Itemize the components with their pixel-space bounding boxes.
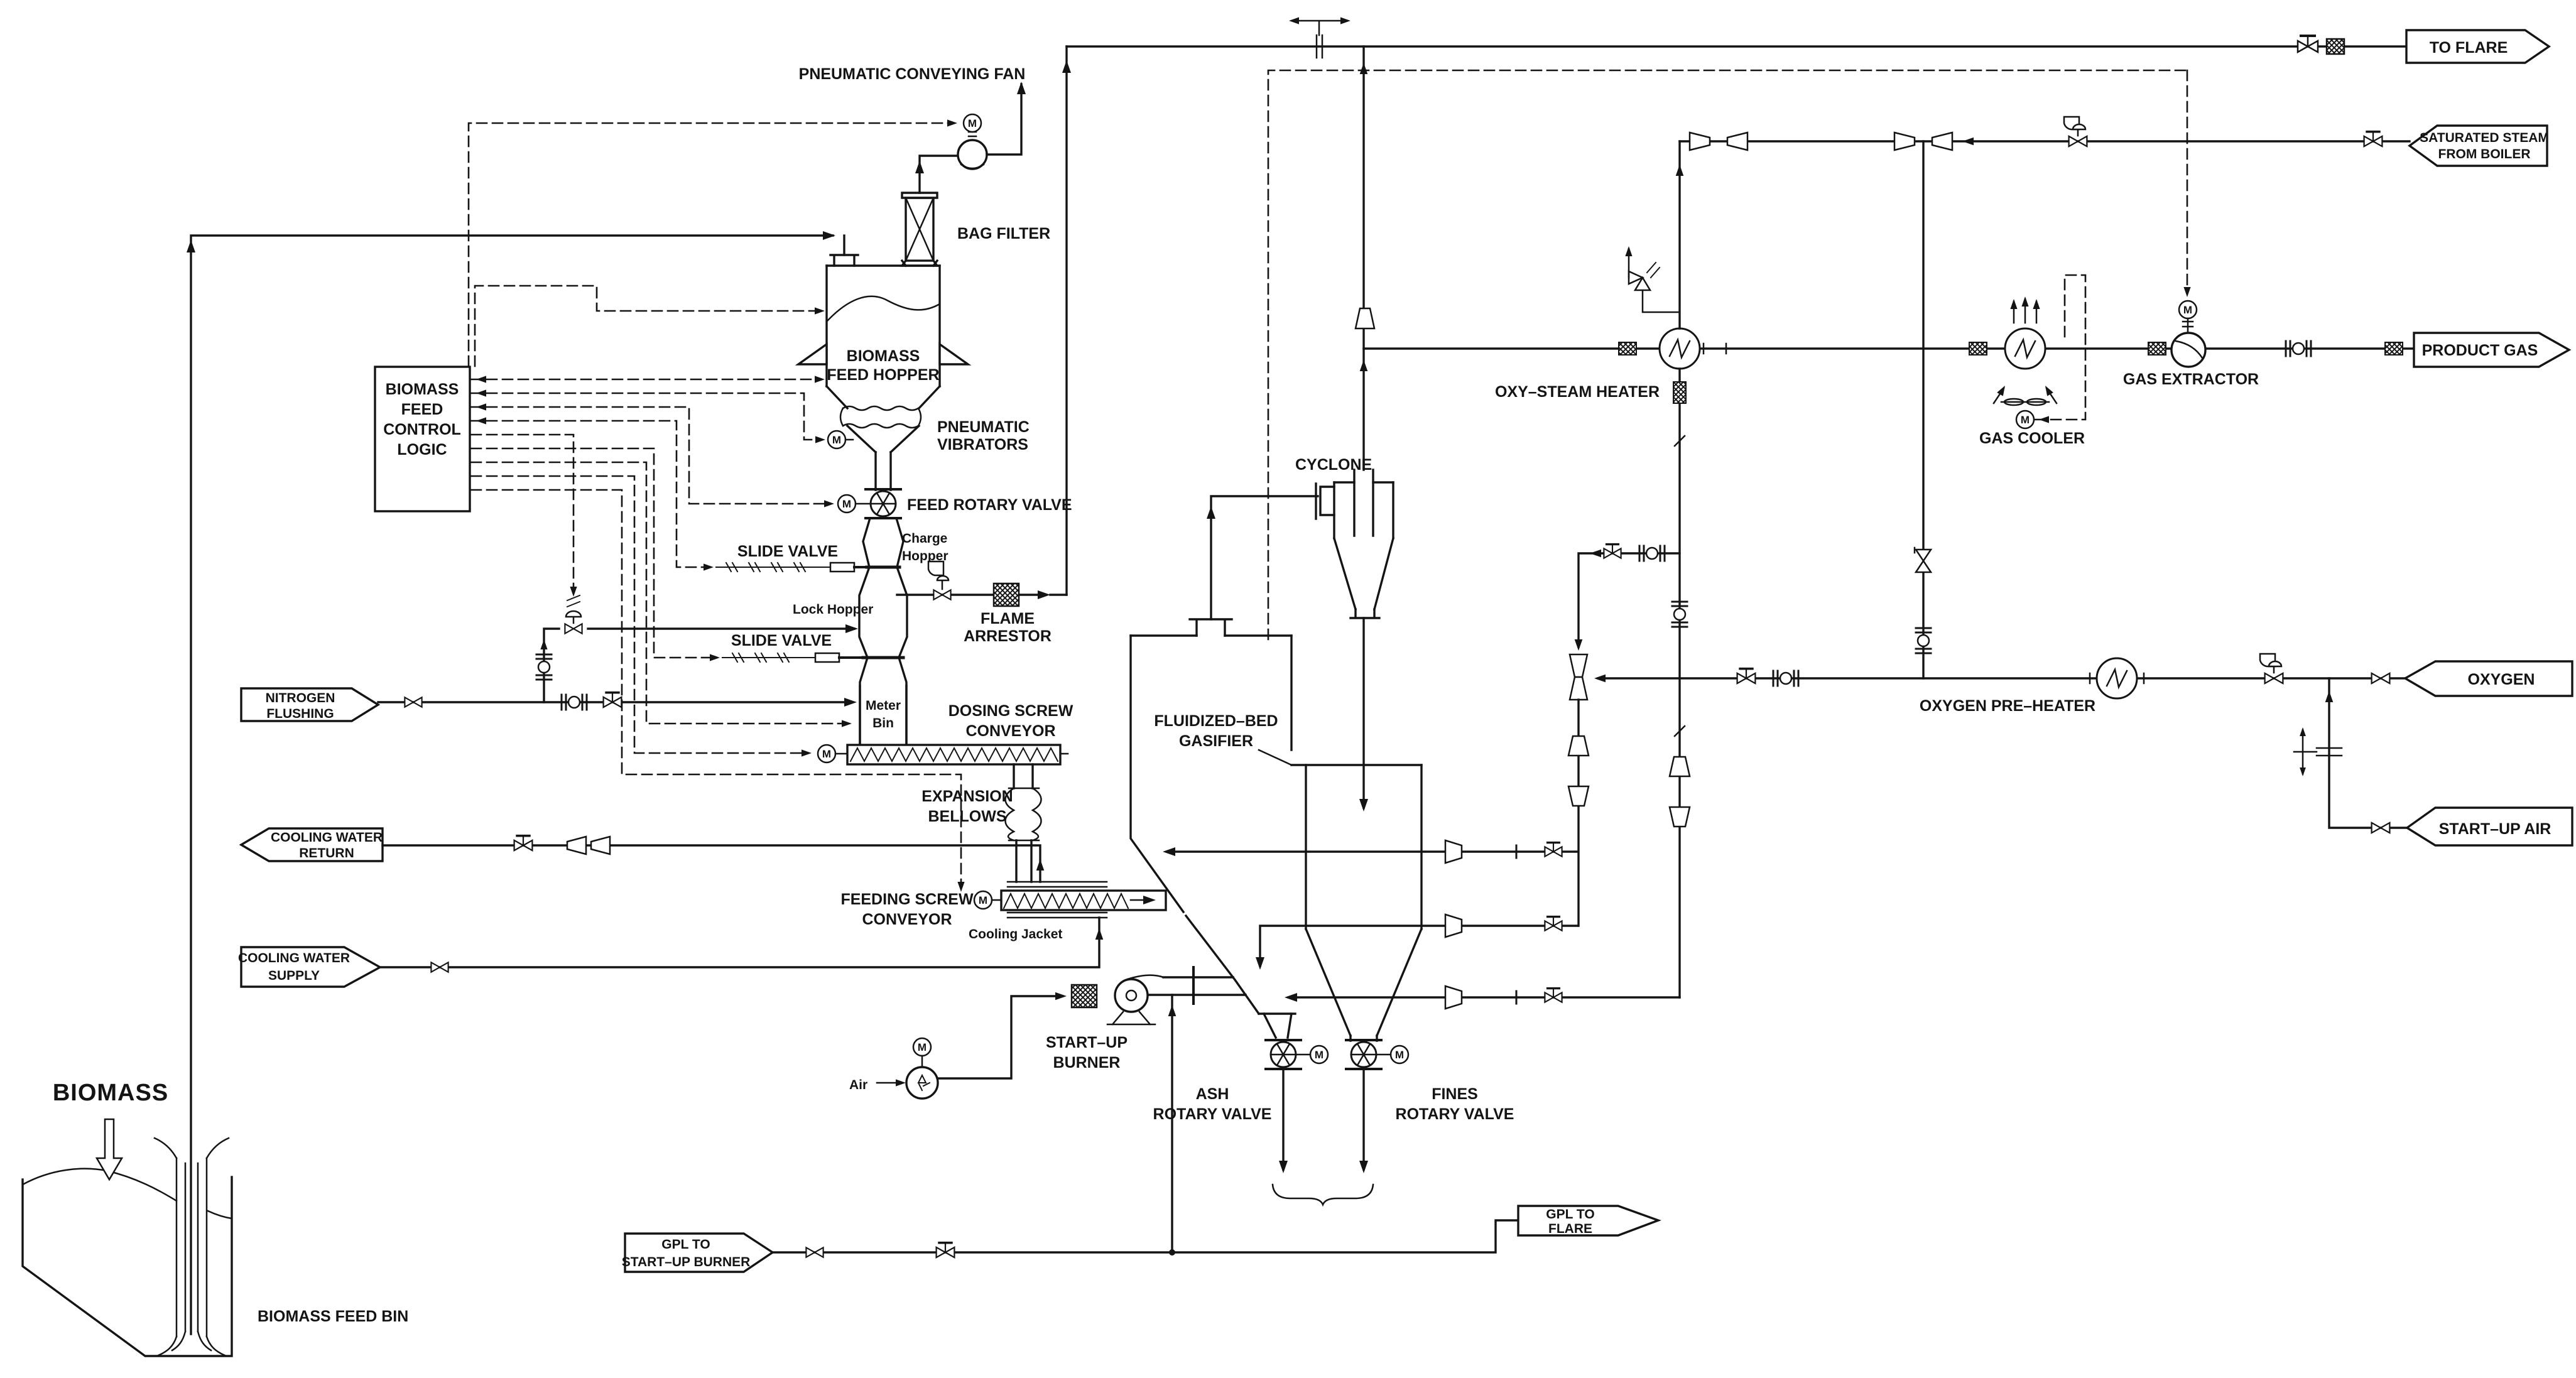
chute from dosing screw to bellows <box>1014 764 1033 788</box>
motor M of conveying fan <box>964 114 981 132</box>
signal B: to hopper upper <box>475 286 817 366</box>
signal H: to slide valve 2 <box>471 448 715 658</box>
gasifier left wall <box>1131 636 1183 912</box>
injection line 3 into ash zone <box>1289 996 1680 998</box>
strainer before extractor <box>2148 342 2166 355</box>
control signal dashed lines <box>469 123 961 888</box>
signal K: to feeding screw motor <box>471 490 961 888</box>
motor M of feeding screw <box>974 891 992 909</box>
fluidized-bed gasifier vessel <box>1131 619 1421 1041</box>
signal E: to feed rotary valve motor <box>471 407 829 504</box>
label leader <box>1259 750 1291 765</box>
svg-text:SUPPLY: SUPPLY <box>268 968 320 983</box>
feed rotary valve <box>866 489 901 518</box>
svg-text:BIOMASS FEED BIN: BIOMASS FEED BIN <box>258 1308 408 1325</box>
ash discharge <box>1282 1069 1284 1169</box>
svg-text:START–UP: START–UP <box>1046 1034 1128 1051</box>
svg-text:CONTROL: CONTROL <box>383 421 461 438</box>
oxygen line <box>1599 677 2405 679</box>
meter bin walls <box>860 686 906 745</box>
flag: NITROGEN FLUSHING <box>241 688 378 721</box>
svg-text:BAG FILTER: BAG FILTER <box>957 225 1050 242</box>
orifice on steam drop <box>1916 628 1931 653</box>
product gas line <box>1364 347 2412 349</box>
fines hopper cone <box>1306 929 1421 1036</box>
oxygen pre-heater <box>2097 658 2137 698</box>
svg-text:LOGIC: LOGIC <box>397 441 447 458</box>
funnels on oxy-steam riser <box>1670 757 1690 776</box>
svg-text:Lock Hopper: Lock Hopper <box>793 602 873 617</box>
manifold down to injection lines <box>1577 700 1579 926</box>
strainer before gas cooler <box>1969 342 1987 355</box>
svg-text:FLARE: FLARE <box>1548 1222 1592 1236</box>
flare header <box>1067 45 2405 47</box>
wire: drop into hopper nozzle <box>843 236 845 255</box>
oxy-steam riser <box>1678 141 1680 997</box>
signal G: to nitrogen control valve <box>471 435 573 593</box>
svg-text:SLIDE VALVE: SLIDE VALVE <box>731 632 832 649</box>
svg-text:FINES: FINES <box>1432 1085 1478 1103</box>
flag: COOLING WATER RETURN <box>241 828 383 861</box>
chute from bellows to feeding screw <box>1016 840 1031 882</box>
slide valve 1 gate plate <box>867 566 899 569</box>
svg-text:CONVEYOR: CONVEYOR <box>965 722 1055 740</box>
svg-text:Charge: Charge <box>902 531 947 546</box>
globe valve on oxygen line <box>1737 669 1756 683</box>
GPL riser to burner <box>1171 995 1173 1252</box>
oxy-steam branch to venturi manifold <box>1579 553 1680 647</box>
gasifier lower left wall below feeding screw <box>1186 916 1259 1014</box>
svg-text:Air: Air <box>849 1078 867 1092</box>
relief valve on oxy-steam riser <box>1625 246 1680 312</box>
svg-text:FROM BOILER: FROM BOILER <box>2438 147 2531 161</box>
steam header <box>1680 140 2410 142</box>
valve on CW supply <box>431 962 448 972</box>
orifice on purge riser <box>536 654 552 680</box>
air fan <box>906 1067 938 1099</box>
svg-text:GAS COOLER: GAS COOLER <box>1979 430 2085 447</box>
gasifier top and nozzle <box>1131 634 1291 636</box>
screw discharge arrow into gasifier <box>1131 899 1151 901</box>
flag: OXYGEN <box>2405 661 2572 696</box>
strainer left of oxy-steam heater <box>1619 342 1636 355</box>
reducer on riser <box>1356 308 1374 328</box>
svg-text:OXYGEN PRE–HEATER: OXYGEN PRE–HEATER <box>1920 697 2095 715</box>
gasifier gas outlet to cyclone <box>1211 496 1318 619</box>
slide valve 1 actuator rod and body <box>716 563 830 572</box>
gasifier right wall upper <box>1290 636 1292 750</box>
expander pair on steam header <box>1690 133 1710 150</box>
start-up burner <box>1107 975 1163 1024</box>
svg-text:TO FLARE: TO FLARE <box>2430 39 2508 57</box>
nitrogen purge branch riser <box>544 629 559 702</box>
funnels on manifold <box>1568 736 1589 756</box>
svg-text:PNEUMATIC: PNEUMATIC <box>937 418 1030 436</box>
injection quill on riser <box>2294 730 2342 774</box>
valve near oxygen flag <box>2372 673 2390 683</box>
GPL main line <box>773 1220 1518 1252</box>
gate valve on steam drop <box>1915 548 1931 572</box>
cyclone overhead riser to flare header <box>1362 46 1364 470</box>
flag: TO FLARE <box>2406 30 2549 63</box>
underbrace <box>1273 1185 1373 1205</box>
slide valve 2 actuator rod and body <box>722 653 815 662</box>
charge hopper vent line to flare riser <box>897 594 1045 595</box>
signal arrowheads <box>947 119 957 126</box>
biomass inflow hollow arrow <box>97 1119 122 1180</box>
svg-text:COOLING WATER: COOLING WATER <box>271 830 383 845</box>
signal C: to hopper skirt <box>471 379 818 381</box>
oxy-steam heater <box>1660 328 1700 369</box>
orifice on oxygen line <box>1773 671 1798 686</box>
valve on start-up air line <box>2372 823 2390 833</box>
signal F: to slide valve 1 <box>471 421 709 567</box>
expansion bellows <box>1006 788 1041 840</box>
svg-text:ARRESTOR: ARRESTOR <box>964 627 1052 645</box>
flag: START-UP AIR <box>2407 808 2572 845</box>
steam tee reducers <box>1894 133 1915 150</box>
svg-text:START–UP AIR: START–UP AIR <box>2439 820 2552 838</box>
globe valve on GPL line <box>937 1243 955 1257</box>
pneumatic conveying fan <box>958 132 987 169</box>
steam drop line to oxygen <box>1922 141 1924 678</box>
steam control valve <box>2064 117 2087 146</box>
svg-text:FEEDING SCREW: FEEDING SCREW <box>840 891 974 908</box>
orifice on oxy-steam riser <box>1672 602 1687 627</box>
ash rotary valve <box>1266 1040 1301 1069</box>
fines discharge <box>1362 1069 1364 1169</box>
pressure regulator valve on vent <box>928 562 951 600</box>
svg-text:GPL TO: GPL TO <box>1546 1207 1594 1222</box>
svg-text:BIOMASS: BIOMASS <box>53 1080 168 1106</box>
cooling jacket plates <box>1008 882 1107 887</box>
gas cooler <box>2005 328 2045 369</box>
svg-text:FLUSHING: FLUSHING <box>266 707 334 721</box>
line break marks <box>1675 436 1685 736</box>
fines section roof <box>1291 764 1421 766</box>
svg-text:ROTARY VALVE: ROTARY VALVE <box>1396 1105 1514 1123</box>
svg-text:BURNER: BURNER <box>1053 1054 1121 1071</box>
signal I: to meter bin <box>471 462 847 724</box>
svg-text:BELLOWS: BELLOWS <box>928 808 1007 825</box>
silencer on flare header <box>2327 39 2344 54</box>
globe valve near steam flag <box>2364 132 2383 146</box>
injection line 1 into freeboard <box>1167 850 1578 852</box>
motor M of dosing screw <box>818 745 835 762</box>
gas extractor <box>2179 301 2197 318</box>
flame arrestor on vent <box>994 583 1019 606</box>
orifice on product line <box>2286 341 2311 356</box>
svg-text:Cooling Jacket: Cooling Jacket <box>969 927 1062 941</box>
wire: fan discharge vent <box>987 84 1021 155</box>
svg-text:Bin: Bin <box>872 716 894 730</box>
dashed: gas cooler control <box>2035 275 2085 420</box>
flag: GPL TO START-UP BURNER <box>625 1234 773 1272</box>
cyclone <box>1316 470 1393 618</box>
cooling water return line <box>383 845 1040 882</box>
wire: vent riser to flare header <box>1065 46 1067 595</box>
svg-text:FEED HOPPER: FEED HOPPER <box>827 366 939 384</box>
burner air line <box>938 996 1060 1078</box>
svg-text:Meter: Meter <box>866 698 901 713</box>
flag: PRODUCT GAS <box>2414 333 2569 367</box>
flag: COOLING WATER SUPPLY <box>241 947 380 987</box>
slide valve 2 gate plate <box>863 656 903 659</box>
flag: SATURATED STEAM FROM BOILER <box>2410 126 2547 166</box>
cooling water supply line <box>380 918 1099 967</box>
venturi mixer <box>1570 654 1587 700</box>
reducer pair on CW return <box>567 837 586 854</box>
start-up air riser <box>2329 678 2407 828</box>
pneumatic vibrator motor M <box>828 431 845 448</box>
signal J: to dosing screw motor <box>471 476 807 753</box>
svg-text:FLAME: FLAME <box>981 610 1035 627</box>
cyclone dipleg into fines hopper <box>1362 618 1364 808</box>
orifice on nitrogen line <box>562 695 587 710</box>
svg-text:CYCLONE: CYCLONE <box>1295 456 1372 474</box>
biomass feed control logic box <box>375 367 470 511</box>
svg-text:START–UP BURNER: START–UP BURNER <box>622 1255 751 1269</box>
purge line into lock hopper <box>588 627 854 629</box>
biomass feed bin <box>23 1138 232 1356</box>
feeding screw conveyor trough <box>1001 891 1166 910</box>
svg-text:RETURN: RETURN <box>299 846 354 860</box>
silencer before product flag <box>2385 342 2403 355</box>
svg-text:EXPANSION: EXPANSION <box>921 788 1013 805</box>
valve on GPL line <box>806 1247 823 1257</box>
globe valve on nitrogen line <box>604 693 622 707</box>
svg-text:OXYGEN: OXYGEN <box>2468 671 2535 688</box>
burner discharge duct into gasifier <box>1149 977 1246 995</box>
orifice on branch <box>1639 546 1665 561</box>
svg-text:GASIFIER: GASIFIER <box>1179 732 1253 750</box>
svg-text:CONVEYOR: CONVEYOR <box>862 911 952 928</box>
svg-text:ASH: ASH <box>1196 1085 1229 1103</box>
svg-text:FLUIDIZED–BED: FLUIDIZED–BED <box>1154 712 1278 730</box>
ash chute <box>1259 1012 1295 1014</box>
svg-text:OXY–STEAM HEATER: OXY–STEAM HEATER <box>1495 383 1660 401</box>
svg-text:FEED: FEED <box>401 401 443 418</box>
valve on nitrogen line <box>405 697 421 707</box>
svg-text:BIOMASS: BIOMASS <box>386 381 459 398</box>
svg-text:NITROGEN: NITROGEN <box>266 691 335 705</box>
injection line 2 downcomer <box>1260 926 1578 966</box>
signal A: to conveying fan motor <box>469 123 952 366</box>
signal D: to vibrator motor <box>471 393 820 440</box>
svg-text:SATURATED STEAM: SATURATED STEAM <box>2420 131 2549 145</box>
svg-text:DOSING SCREW: DOSING SCREW <box>948 702 1073 720</box>
flame arrestor at burner <box>1072 985 1097 1007</box>
strainer below heater <box>1673 382 1686 403</box>
charge hopper / lock hopper vessel outline <box>859 518 870 745</box>
svg-text:FEED ROTARY VALVE: FEED ROTARY VALVE <box>907 496 1072 514</box>
fines rotary valve <box>1346 1040 1381 1069</box>
valve on flare header <box>2298 36 2318 52</box>
svg-text:GPL TO: GPL TO <box>661 1237 710 1252</box>
dashed: gasifier pressure signal <box>1268 70 2187 639</box>
internal partition <box>1305 765 1307 929</box>
fines section right wall <box>1420 765 1422 929</box>
svg-text:SLIDE VALVE: SLIDE VALVE <box>737 543 838 560</box>
svg-text:BIOMASS: BIOMASS <box>847 347 920 365</box>
svg-text:GAS EXTRACTOR: GAS EXTRACTOR <box>2123 371 2259 388</box>
nitrogen main line <box>378 701 852 703</box>
svg-text:VIBRATORS: VIBRATORS <box>937 436 1028 453</box>
wire: pneumatic conveying line from biomass bin to feed hopper <box>191 236 833 1334</box>
wire: bag filter to fan <box>920 156 957 193</box>
oxygen control valve <box>2260 654 2283 683</box>
svg-text:ROTARY VALVE: ROTARY VALVE <box>1153 1105 1272 1123</box>
flag: GPL TO FLARE <box>1518 1206 1658 1235</box>
bag filter <box>902 193 937 266</box>
svg-text:PRODUCT GAS: PRODUCT GAS <box>2422 342 2538 359</box>
inline breather on flare header <box>1289 17 1350 58</box>
biomass feed hopper <box>798 255 968 490</box>
globe valve on CW return <box>514 836 533 850</box>
dosing screw conveyor trough <box>847 745 1060 764</box>
svg-text:PNEUMATIC CONVEYING FAN: PNEUMATIC CONVEYING FAN <box>799 65 1026 83</box>
globe valve on branch <box>1604 545 1621 558</box>
nitrogen control valve with spring dome <box>565 595 582 634</box>
svg-text:COOLING WATER: COOLING WATER <box>238 951 350 965</box>
